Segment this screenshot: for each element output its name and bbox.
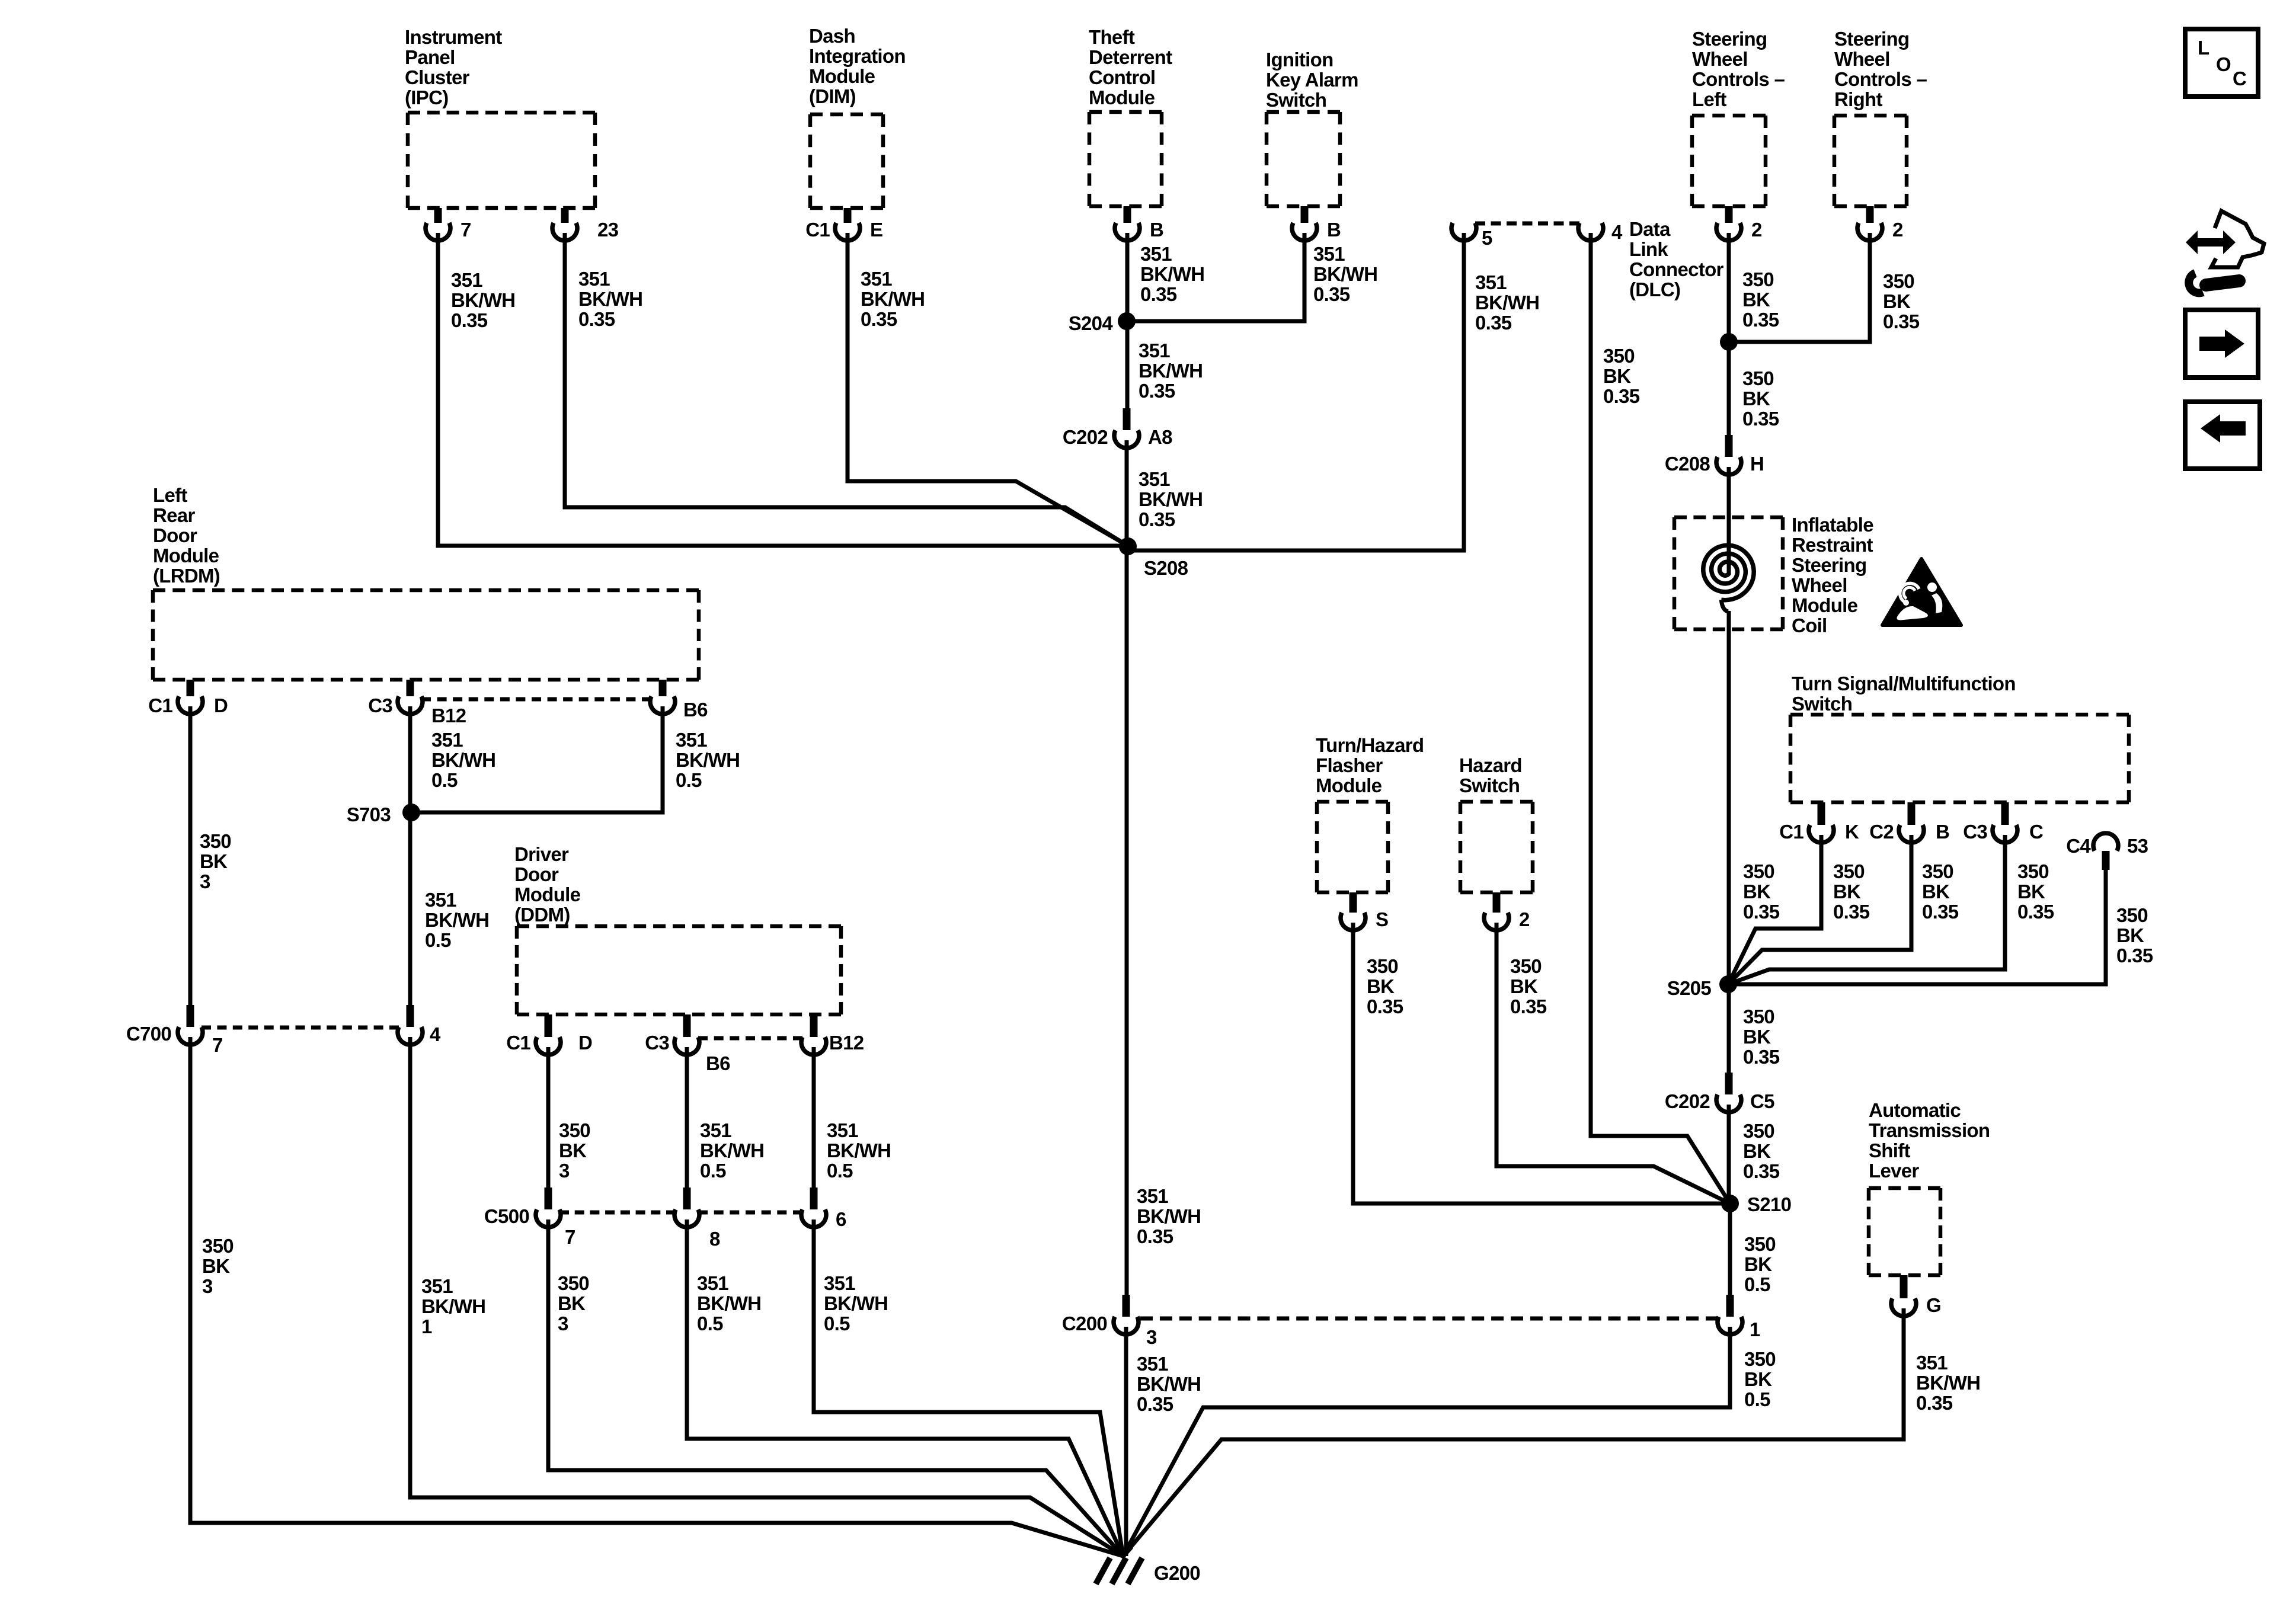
svg-text:S205: S205 (1667, 977, 1712, 999)
svg-text:350: 350 (1743, 1006, 1774, 1028)
svg-text:(LRDM): (LRDM) (153, 565, 220, 587)
connector DDM pin B12 (801, 1014, 864, 1055)
connector Steering Wheel Controls Left pin 2 (1716, 206, 1762, 241)
label wire 350 BK 0.5 (S210 to C200 1) (1744, 1233, 1776, 1295)
svg-text:351: 351 (425, 889, 456, 911)
wire S205 to TSM C2 B (1728, 835, 1911, 984)
svg-text:350: 350 (2116, 904, 2148, 926)
svg-text:350: 350 (1510, 955, 1542, 977)
svg-text:BK/WH: BK/WH (697, 1292, 761, 1314)
svg-text:0.5: 0.5 (431, 769, 458, 791)
svg-text:350: 350 (1744, 1233, 1776, 1255)
svg-text:351: 351 (1137, 1185, 1168, 1207)
label wire 351 BK/WH 0.35 (IPC 7) (451, 269, 515, 331)
label wire 351 BK/WH 0.5 (S703 to 4) (425, 889, 489, 951)
svg-text:B12: B12 (431, 705, 466, 726)
legend forward arrow box (2185, 310, 2258, 377)
label Data Link Connector (DLC) (1629, 218, 1724, 300)
wire IPC pin 23 to S208 (565, 233, 1128, 546)
svg-text:BK: BK (200, 850, 228, 872)
svg-text:B12: B12 (829, 1032, 864, 1054)
svg-text:0.35: 0.35 (1916, 1392, 1953, 1414)
wire S205 to TSM C1 K (1728, 835, 1821, 984)
wire S205 to C202 C5 (1727, 984, 1731, 1074)
svg-text:350: 350 (559, 1119, 590, 1141)
svg-text:350: 350 (1743, 860, 1774, 882)
svg-text:Inflatable: Inflatable (1792, 514, 1873, 536)
svg-text:C3: C3 (368, 694, 392, 716)
svg-text:BK: BK (1744, 1253, 1772, 1275)
module Turn/Hazard Flasher Module label (1316, 734, 1424, 796)
module Automatic Transmission Shift Lever label (1869, 1099, 1990, 1182)
svg-text:(DLC): (DLC) (1629, 279, 1680, 300)
wire S205 to TSM C4 53 (1728, 862, 2106, 984)
label wire 351 BK/WH 0.5 (C500 6 to G200) (824, 1272, 888, 1334)
label wire 351 BK/WH 0.5 (DDM B12) (827, 1119, 891, 1182)
svg-text:Shift: Shift (1869, 1140, 1911, 1161)
wire S210 to C200 pin 1 (1728, 1204, 1732, 1297)
svg-text:0.35: 0.35 (1742, 309, 1779, 331)
module Left Rear Door Module (LRDM) label (153, 484, 220, 587)
svg-text:0.35: 0.35 (1139, 508, 1175, 530)
svg-text:BK/WH: BK/WH (1916, 1372, 1980, 1394)
svg-text:0.35: 0.35 (1510, 996, 1547, 1017)
svg-text:O: O (2216, 53, 2231, 75)
svg-text:351: 351 (431, 729, 463, 751)
svg-text:0.35: 0.35 (1137, 1393, 1173, 1415)
connector LRDM C3 pin B12 (368, 680, 423, 716)
label wire 351 BK/WH 0.35 (DIM E) (861, 268, 925, 330)
module Ignition Key Alarm Switch label (1266, 49, 1358, 111)
svg-text:Steering: Steering (1792, 554, 1866, 576)
svg-text:G200: G200 (1154, 1562, 1200, 1584)
svg-text:350: 350 (1367, 955, 1398, 977)
module coil box (1674, 517, 1783, 629)
svg-text:Module: Module (1316, 774, 1382, 796)
in-line connector C200 pin 3 (1062, 1295, 1157, 1348)
wire LRDM C1 D to C700 (188, 706, 193, 1005)
svg-text:Wheel: Wheel (1834, 48, 1890, 70)
in-line connector C500 pin 8 (674, 1188, 720, 1250)
wire Hazard Switch pin 2 to S210 (1496, 923, 1730, 1204)
module Turn Signal/Multifunction Switch box (1790, 715, 2129, 802)
connector LRDM pin B6 (650, 680, 708, 721)
svg-text:D: D (214, 694, 228, 716)
svg-text:0.35: 0.35 (1743, 901, 1780, 923)
svg-text:2: 2 (1751, 219, 1762, 241)
label wire 350 BK 0.35 (TSM C4) (2116, 904, 2153, 966)
svg-text:Module: Module (1089, 87, 1155, 108)
svg-text:Switch: Switch (1266, 89, 1326, 111)
connector Hazard Switch pin 2 (1484, 892, 1530, 930)
connector Ignition Key Alarm pin B (1292, 206, 1341, 241)
coil spiral (Inflatable Restraint Steering Wheel Module Coil) (1703, 545, 1754, 612)
in-line connector C202 pin A8 (1063, 408, 1172, 448)
legend LOC box (2185, 29, 2258, 97)
connector TSM C1 pin K (1779, 802, 1859, 843)
wire dashed link C700 pins 7-4 (202, 1026, 399, 1030)
wire C200 pin 1 to G200 (1123, 1327, 1730, 1556)
svg-text:Integration: Integration (809, 45, 906, 67)
svg-text:351: 351 (1475, 271, 1507, 293)
module Instrument Panel Cluster (IPC) label (405, 26, 502, 108)
svg-text:C208: C208 (1665, 453, 1710, 475)
svg-text:351: 351 (421, 1275, 453, 1297)
svg-text:350: 350 (202, 1235, 234, 1257)
svg-text:Restraint: Restraint (1792, 534, 1873, 556)
svg-text:BK/WH: BK/WH (1139, 360, 1203, 382)
svg-text:BK/WH: BK/WH (1475, 292, 1539, 313)
svg-text:S210: S210 (1747, 1193, 1791, 1215)
connector TSM C4 pin 53 (dome) (2066, 833, 2148, 870)
svg-text:Theft: Theft (1089, 26, 1135, 48)
module Theft Deterrent Control Module box (1089, 112, 1162, 206)
svg-text:Control: Control (1089, 66, 1155, 88)
label wire 350 BK 0.35 (junction to C208) (1742, 367, 1779, 430)
svg-text:Controls –: Controls – (1834, 68, 1927, 90)
svg-text:C200: C200 (1062, 1313, 1107, 1334)
connector DDM pin B6 label (706, 1052, 730, 1074)
svg-text:S703: S703 (347, 804, 391, 825)
module Inflatable Restraint Steering Wheel Module Coil label (1792, 514, 1873, 636)
svg-text:0.35: 0.35 (1313, 283, 1350, 305)
svg-text:351: 351 (451, 269, 482, 291)
splice S208 (1119, 537, 1188, 579)
svg-text:G: G (1926, 1294, 1941, 1316)
wire IPC pin 7 to S208 (438, 233, 1128, 546)
svg-text:B: B (1936, 821, 1949, 843)
module Turn Signal/Multifunction Switch label (1792, 673, 2016, 715)
svg-text:Automatic: Automatic (1869, 1099, 1961, 1121)
svg-text:A8: A8 (1148, 426, 1172, 448)
svg-text:BK/WH: BK/WH (824, 1292, 888, 1314)
svg-text:0.35: 0.35 (1603, 385, 1640, 407)
svg-text:3: 3 (558, 1313, 568, 1334)
svg-text:BK/WH: BK/WH (861, 288, 925, 310)
svg-text:BK/WH: BK/WH (431, 749, 495, 771)
splice S703 (347, 804, 420, 825)
svg-text:350: 350 (1743, 1120, 1774, 1142)
svg-text:Instrument: Instrument (405, 26, 502, 48)
svg-text:BK/WH: BK/WH (1139, 488, 1203, 510)
label wire 351 BK/WH 0.35 (ATSL G) (1916, 1352, 1980, 1414)
airbag warning triangle (1882, 559, 1961, 625)
svg-text:0.5: 0.5 (824, 1313, 850, 1334)
svg-text:0.35: 0.35 (861, 308, 897, 330)
junction dot (SWC left/right wires) (1720, 333, 1738, 351)
svg-text:C2: C2 (1869, 821, 1894, 843)
wire S703 to connector 4 (408, 812, 412, 1005)
svg-text:Turn Signal/Multifunction: Turn Signal/Multifunction (1792, 673, 2016, 694)
svg-text:C1: C1 (805, 219, 830, 241)
wire DLC pin 4 to S210 (1591, 233, 1730, 1204)
svg-text:350: 350 (1742, 367, 1774, 389)
wire dashed link DLC pins 5-4 (1475, 222, 1579, 226)
svg-text:C5: C5 (1750, 1090, 1774, 1112)
module IPC box (408, 113, 595, 208)
svg-text:B6: B6 (683, 699, 708, 721)
wire DDM C1 D to C500 pin 7 (546, 1047, 551, 1188)
svg-text:0.35: 0.35 (1475, 312, 1512, 334)
svg-text:351: 351 (676, 729, 707, 751)
wire LRDM C3 B12 to S703 (408, 706, 412, 812)
wire C500 pin 8 to G200 (687, 1219, 1123, 1556)
svg-text:0.35: 0.35 (1743, 1046, 1780, 1068)
svg-text:0.5: 0.5 (827, 1160, 853, 1182)
svg-text:0.35: 0.35 (2116, 945, 2153, 966)
connector LRDM C1 pin D (148, 680, 228, 716)
wire Turn/Hazard Flasher pin S to S210 (1353, 923, 1730, 1204)
svg-text:Wheel: Wheel (1792, 574, 1847, 596)
label wire 350 BK 0.35 (SWC Left) (1742, 268, 1779, 331)
svg-text:0.35: 0.35 (2017, 901, 2054, 923)
wire C202 C5 to S210 (1727, 1105, 1731, 1204)
svg-text:Door: Door (153, 524, 197, 546)
svg-text:B6: B6 (706, 1052, 730, 1074)
connector DDM C1 pin D (506, 1014, 592, 1055)
label wire 350 BK 0.35 (Hazard 2) (1510, 955, 1547, 1017)
svg-text:Controls –: Controls – (1692, 68, 1785, 90)
svg-text:C3: C3 (645, 1032, 669, 1054)
wire connector 4 to G200 (410, 1037, 1123, 1556)
svg-text:350: 350 (1883, 270, 1914, 292)
svg-text:BK: BK (1743, 881, 1771, 902)
svg-text:C3: C3 (1963, 821, 1987, 843)
svg-text:Right: Right (1834, 88, 1883, 110)
in-line connector C500 pin 7 (484, 1188, 575, 1248)
svg-text:BK/WH: BK/WH (700, 1140, 764, 1161)
svg-text:Turn/Hazard: Turn/Hazard (1316, 734, 1424, 756)
connector TSM C2 pin B (1869, 802, 1949, 843)
wire C202 A8 to S208 (1125, 440, 1129, 546)
connector TSM C3 pin C (1963, 802, 2043, 843)
svg-text:BK/WH: BK/WH (1313, 263, 1377, 285)
label wire 351 BK/WH 0.5 (LRDM B12) (431, 729, 495, 791)
wire Theft Deterrent pin B to C202 A8 (1125, 233, 1130, 410)
label wire 350 BK 3 (DDM D) (559, 1119, 590, 1182)
connector Turn/Hazard Flasher pin S (1341, 892, 1388, 930)
wire coil to S205 (1727, 611, 1731, 984)
svg-text:351: 351 (1139, 468, 1170, 490)
wire dashed link C500 pins 7-8 (559, 1211, 676, 1215)
svg-text:Rear: Rear (153, 504, 195, 526)
module Automatic Transmission Shift Lever box (1869, 1188, 1940, 1275)
svg-text:(DIM): (DIM) (809, 85, 856, 107)
in-line connector C500 pin 6 (801, 1188, 846, 1230)
svg-text:351: 351 (1916, 1352, 1948, 1374)
label wire 351 BK/WH 0.35 (C200 3 to G200) (1137, 1353, 1201, 1415)
svg-text:Steering: Steering (1834, 28, 1909, 50)
svg-text:0.35: 0.35 (578, 308, 615, 330)
svg-text:K: K (1845, 821, 1859, 843)
svg-text:Panel: Panel (405, 46, 455, 68)
svg-text:Switch: Switch (1792, 693, 1852, 715)
svg-text:BK: BK (558, 1292, 586, 1314)
module Theft Deterrent Control Module label (1089, 26, 1172, 108)
label wire 350 BK 3 (LRDM D) (200, 830, 231, 892)
svg-text:S: S (1376, 908, 1388, 930)
legend harness routing icon (2186, 211, 2264, 293)
svg-text:0.5: 0.5 (1744, 1273, 1770, 1295)
module DIM box (810, 114, 883, 208)
svg-text:Cluster: Cluster (405, 66, 470, 88)
svg-text:350: 350 (1603, 345, 1635, 367)
svg-text:(IPC): (IPC) (405, 87, 449, 108)
svg-text:0.5: 0.5 (676, 769, 702, 791)
svg-text:BK: BK (1603, 365, 1631, 387)
module Steering Wheel Controls - Left box (1692, 116, 1766, 206)
svg-text:Deterrent: Deterrent (1089, 46, 1172, 68)
label wire 351 BK/WH 0.35 (Ignition B) (1313, 243, 1377, 305)
svg-text:Left: Left (1692, 88, 1726, 110)
svg-text:C: C (2029, 821, 2043, 843)
label wire 351 BK/WH 0.35 (S208 to C200 3) (1137, 1185, 1201, 1247)
svg-text:BK/WH: BK/WH (1137, 1373, 1201, 1395)
in-line connector C700 pin 7 (126, 1005, 223, 1056)
svg-text:350: 350 (2017, 860, 2049, 882)
wire DDM C3 B6 to C500 pin 8 (685, 1047, 689, 1188)
svg-text:BK/WH: BK/WH (421, 1295, 485, 1317)
label wire 350 BK 0.35 (coil to S205) (1743, 860, 1780, 923)
svg-text:E: E (870, 219, 882, 241)
svg-text:S208: S208 (1144, 557, 1188, 579)
svg-text:C202: C202 (1665, 1090, 1710, 1112)
in-line connector C208 pin H (1665, 435, 1764, 475)
svg-text:H: H (1750, 453, 1764, 475)
svg-text:350: 350 (1922, 860, 1953, 882)
connector DLC pin 5 (1451, 223, 1492, 249)
svg-text:0.5: 0.5 (1744, 1388, 1770, 1410)
svg-text:BK: BK (1742, 289, 1770, 311)
svg-text:7: 7 (212, 1034, 223, 1056)
svg-text:8: 8 (709, 1228, 720, 1250)
svg-text:BK: BK (1510, 975, 1538, 997)
svg-text:BK: BK (1883, 290, 1911, 312)
svg-text:BK/WH: BK/WH (578, 288, 642, 310)
svg-text:351: 351 (1140, 243, 1172, 265)
svg-text:BK: BK (2116, 924, 2144, 946)
svg-text:3: 3 (202, 1275, 213, 1297)
module Steering Wheel Controls - Right box (1834, 116, 1907, 206)
label wire 350 BK 0.35 (Flasher S) (1367, 955, 1403, 1017)
label wire 350 BK 0.35 (C202 C5 to S210) (1743, 1120, 1780, 1182)
svg-text:C4: C4 (2066, 835, 2091, 857)
svg-text:Steering: Steering (1692, 28, 1767, 50)
wire DIM pin E to S208 (848, 233, 1128, 546)
svg-text:0.35: 0.35 (451, 309, 488, 331)
svg-text:3: 3 (559, 1160, 570, 1182)
svg-text:C500: C500 (484, 1205, 529, 1227)
in-line connector C200 pin 1 (1718, 1295, 1760, 1340)
svg-text:350: 350 (558, 1272, 589, 1294)
svg-text:351: 351 (1139, 340, 1170, 361)
svg-text:0.5: 0.5 (700, 1160, 726, 1182)
module Ignition Key Alarm Switch box (1267, 112, 1340, 206)
wire dashed link C500 pins 8-6 (698, 1211, 802, 1215)
svg-text:BK: BK (202, 1255, 230, 1277)
svg-text:C700: C700 (126, 1023, 171, 1045)
label wire 350 BK 3 (C700 to G200) (202, 1235, 234, 1297)
svg-text:BK: BK (2017, 881, 2045, 902)
splice S205 (1667, 975, 1737, 999)
label wire 350 BK 0.35 (SWC Right) (1883, 270, 1920, 332)
connector IPC pin 7 (426, 208, 471, 241)
wire dashed link LRDM B12-B6 (421, 697, 651, 702)
legend back arrow box (2185, 402, 2260, 469)
svg-text:351: 351 (1137, 1353, 1168, 1375)
svg-text:BK/WH: BK/WH (676, 749, 740, 771)
in-line connector 4 (C700 mate) (398, 1005, 441, 1045)
svg-text:D: D (578, 1032, 592, 1054)
label wire 350 BK 0.35 (S205 to C202 C5) (1743, 1006, 1780, 1068)
svg-text:0.5: 0.5 (425, 929, 451, 951)
wire S208 to C200 pin 3 (1125, 546, 1129, 1297)
svg-text:350: 350 (1744, 1348, 1776, 1370)
svg-text:C1: C1 (1779, 821, 1803, 843)
label wire 351 BK/WH 1 (4 to G200) (421, 1275, 485, 1337)
svg-text:6: 6 (836, 1208, 846, 1230)
connector Theft Deterrent pin B (1115, 206, 1163, 241)
label wire 350 BK 0.5 (C200 1 to G200) (1744, 1348, 1776, 1410)
svg-text:2: 2 (1892, 219, 1903, 241)
module DDM box (517, 926, 841, 1014)
svg-text:BK/WH: BK/WH (1137, 1205, 1201, 1227)
svg-text:351: 351 (578, 268, 610, 290)
connector LRDM pin B12 label (431, 705, 466, 726)
wire DDM B12 to C500 pin 6 (812, 1047, 816, 1188)
wire C700 pin 7 to G200 (190, 1037, 1123, 1556)
module LRDM box (153, 590, 699, 680)
svg-text:0.35: 0.35 (1139, 380, 1175, 402)
svg-text:0.35: 0.35 (1922, 901, 1959, 923)
label wire 351 BK/WH 0.35 (S204 to C202) (1139, 340, 1203, 402)
svg-text:BK/WH: BK/WH (451, 289, 515, 311)
label wire 351 BK/WH 0.35 (C202 to S208) (1139, 468, 1203, 530)
svg-text:2: 2 (1519, 908, 1530, 930)
svg-text:BK: BK (1742, 388, 1770, 409)
module Steering Wheel Controls - Left label (1692, 28, 1785, 110)
svg-text:BK: BK (1744, 1368, 1772, 1390)
svg-text:BK: BK (1833, 881, 1861, 902)
wire S205 to TSM C3 C (1728, 835, 2005, 984)
svg-text:Driver: Driver (514, 843, 569, 865)
connector DDM C3 pin B6 (645, 1014, 699, 1055)
module Driver Door Module (DDM) label (514, 843, 581, 926)
svg-text:Module: Module (153, 545, 219, 566)
svg-text:3: 3 (1146, 1326, 1157, 1348)
svg-text:BK/WH: BK/WH (425, 909, 489, 931)
wire Steering Wheel Controls Right pin 2 to junction (1729, 233, 1870, 342)
splice S204 (1069, 312, 1136, 334)
svg-text:0.5: 0.5 (697, 1313, 723, 1334)
svg-text:Key Alarm: Key Alarm (1266, 69, 1358, 91)
svg-text:Data: Data (1629, 218, 1671, 240)
wire Steering Wheel Controls Left pin 2 to C208 (1727, 233, 1731, 437)
label wire 351 BK/WH 0.35 (IPC 23) (578, 268, 642, 330)
svg-text:0.35: 0.35 (1140, 283, 1177, 305)
svg-text:4: 4 (1611, 221, 1623, 243)
svg-text:BK: BK (559, 1140, 587, 1161)
svg-text:C: C (2233, 68, 2246, 89)
wire Automatic Transmission Shift Lever pin G to G200 (1123, 1308, 1904, 1556)
svg-text:3: 3 (200, 870, 210, 892)
svg-text:0.35: 0.35 (1742, 408, 1779, 430)
wire dashed link C200 pins 3-1 (1140, 1317, 1718, 1321)
label wire 351 BK/WH 0.5 (C500 8 to G200) (697, 1272, 761, 1334)
svg-text:Module: Module (1792, 594, 1858, 616)
svg-text:5: 5 (1482, 227, 1492, 249)
wire dashed link DDM B6-B12 (698, 1036, 802, 1041)
